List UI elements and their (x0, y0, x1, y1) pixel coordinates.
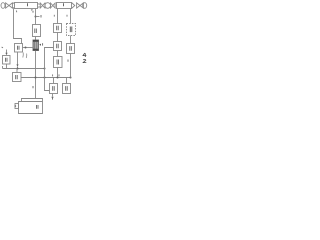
fan F1 (left intake fan: circle + bowtie) (1, 3, 12, 9)
duct box U1 (long top-left box) (12, 3, 38, 9)
fan F2 (right fan: bowtie + circle) (77, 3, 87, 9)
node N5 (W5 crosses bus2) (35, 77, 37, 79)
leader squiggles 12 (22, 53, 25, 58)
glyph in M1 (35, 29, 37, 34)
wire W9 (corner from R2 left edge down) (45, 48, 54, 69)
wire W1 (left drop from U1, corner into box K1) (14, 9, 22, 44)
box R2 (mid-right column, middle) (54, 42, 62, 51)
label 13 near arrow (42, 43, 44, 45)
wire R1-R2 (57, 33, 59, 42)
wire W7 (K1 bottom down to bus, with arrowhead) (17, 52, 19, 65)
wire W3 (drop from U2 left to R1) (57, 9, 59, 24)
node N4 (bus1 right end on W10) (44, 68, 46, 70)
wire D1-R4 (70, 36, 72, 44)
wire R2-R3 (57, 51, 59, 57)
wire W10 (continues down, into B3 left side) (45, 69, 50, 91)
glyph in R1 (57, 26, 59, 30)
stub from N1 (36, 16, 40, 18)
wire W2 (drop from U1 to M1) (35, 9, 37, 25)
label tick 9 (2, 46, 3, 49)
label tick on W4b (67, 60, 69, 62)
wire W5 (pump down to battery) (35, 51, 37, 99)
glyph in R2 (57, 44, 59, 48)
label tick on W3 (53, 15, 55, 17)
label above B3 (52, 74, 54, 76)
box R1 (mid-right column, top) (54, 24, 62, 33)
label tick left of W5 (32, 86, 34, 88)
bus B1 (horizontal bus y68.5) (3, 68, 45, 70)
connector U1 to T1 (38, 4, 41, 7)
box K1 (left middle box) (15, 44, 23, 53)
node N6 (W10 crosses bus2) (44, 77, 46, 79)
node N2 on W6 (25, 47, 27, 49)
stub bus2 to B3 top (53, 78, 55, 84)
glyph in D1 (70, 27, 72, 33)
wire W6 (K1 right to pump left) (23, 47, 34, 49)
node N3 (K1 drop joins bus1) (17, 68, 19, 70)
glyph in R3 (57, 60, 59, 65)
bus B2 (horizontal bus y77.5) (21, 77, 71, 79)
label inside U2 (63, 3, 65, 6)
label above B4 stub (58, 74, 60, 76)
arrow A1 into pump (39, 44, 41, 46)
box R4 (right column box) (67, 44, 75, 54)
node N7 (W4b ends on bus2) (70, 77, 72, 79)
box L2 (box below bus1) (13, 73, 22, 82)
wire W4b (R4 down to bus2) (70, 54, 72, 78)
box L1 (far left box) (3, 56, 11, 65)
dashed box D1 (right column, dashed) (67, 24, 76, 36)
turbo machine T1 (middle: bowtie-circle-bowtie) (40, 3, 55, 9)
bus B1 left end tick (2, 66, 4, 69)
wire R3 bottom to bus2 (57, 68, 59, 78)
box B3 (bottom box 1) (50, 84, 58, 94)
arrow A2 into box L1 top (6, 50, 8, 54)
wire W8 (L1 bottom to bus1) (6, 64, 8, 69)
duct box U2 (top-right box with pointed end) (57, 3, 75, 9)
stub below B3 with mark (52, 94, 54, 97)
glyph in BT1 (37, 105, 39, 109)
glyph in K1 (18, 46, 20, 50)
figure label Fig 2 (83, 53, 86, 63)
glyph in L2 (16, 75, 18, 79)
glyph in B4 (66, 86, 68, 91)
node N1 (junction on W2) (35, 16, 37, 18)
stub bus1 to L2 top (16, 69, 18, 73)
glyph in R4 (70, 46, 72, 51)
box M1 (middle column upper box) (33, 25, 41, 37)
pump P1 (dark shaded cylinder) (33, 40, 39, 51)
glyph in B3 (53, 86, 55, 91)
label tick 16 (15, 11, 18, 13)
label 1 inside U1 (27, 3, 29, 6)
wire M1 to pump (35, 37, 37, 41)
glyph in L1 (6, 58, 8, 62)
label 5 on W2 (32, 11, 34, 13)
wire W4 (drop from U2 right to D1) (70, 9, 72, 24)
label tick on W4 (66, 15, 68, 17)
battery BT1 (bottom-left tank) (15, 99, 43, 114)
label 6 at stub end (40, 15, 42, 18)
stub bus2 to B4 top (66, 78, 68, 84)
arrow under U1 (31, 9, 33, 11)
box R3 (mid-right column, bottom) (54, 57, 63, 68)
box B4 (bottom box 2) (63, 84, 71, 94)
node N8 (R3 stub joins bus2) (57, 77, 59, 79)
